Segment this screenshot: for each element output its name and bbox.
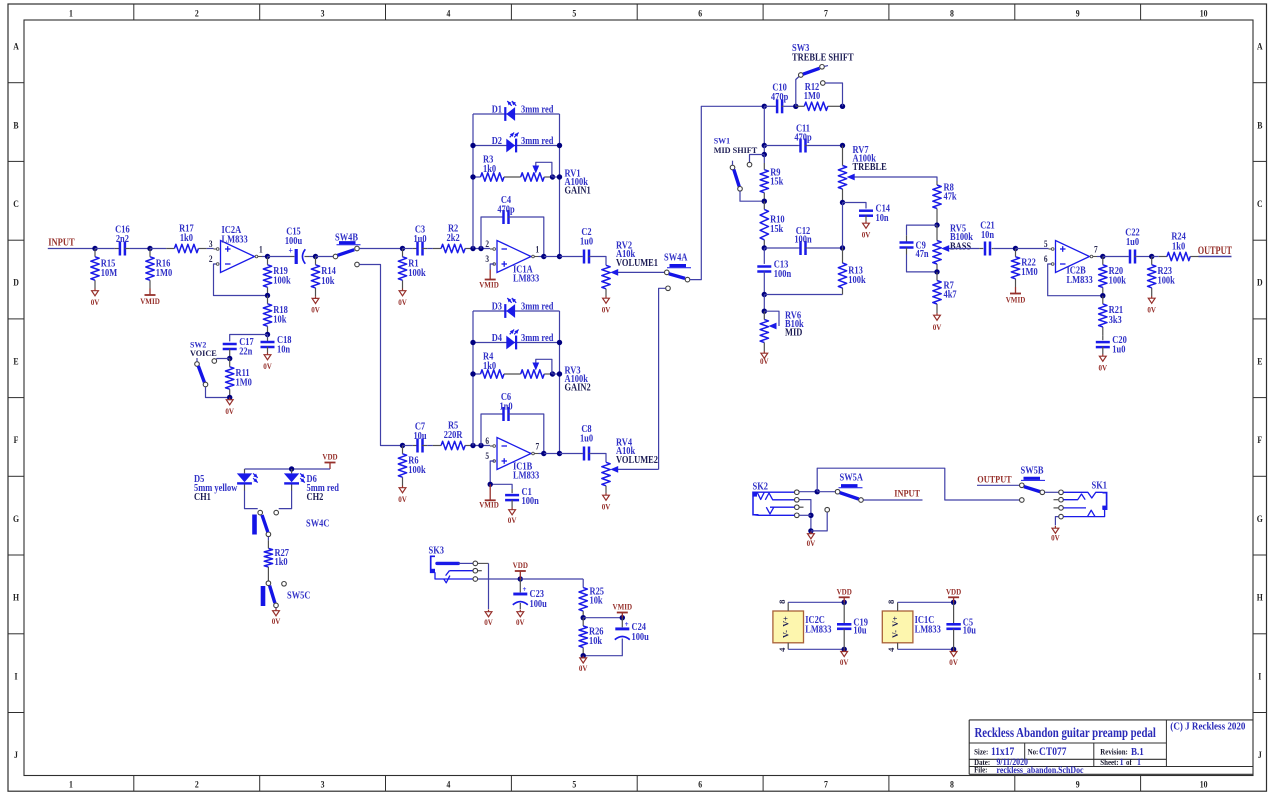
svg-text:TREBLE: TREBLE — [853, 162, 887, 173]
svg-text:VOICE: VOICE — [190, 349, 217, 358]
svg-text:D: D — [1257, 277, 1263, 288]
svg-text:4: 4 — [447, 779, 451, 790]
svg-text:1u0: 1u0 — [1126, 237, 1139, 248]
svg-text:File:: File: — [974, 765, 987, 775]
svg-text:D2: D2 — [492, 136, 503, 147]
svg-text:0V: 0V — [602, 305, 611, 315]
svg-text:VOLUME1: VOLUME1 — [616, 258, 658, 269]
svg-text:1M0: 1M0 — [1021, 267, 1038, 278]
svg-text:10k: 10k — [321, 276, 335, 287]
svg-text:2n2: 2n2 — [116, 234, 129, 245]
svg-text:470p: 470p — [771, 92, 788, 103]
svg-text:1k0: 1k0 — [483, 164, 496, 175]
svg-text:G: G — [1257, 513, 1263, 524]
svg-text:0V: 0V — [579, 663, 588, 673]
svg-text:2: 2 — [209, 254, 213, 264]
svg-text:+: + — [523, 584, 527, 594]
svg-text:VDD: VDD — [946, 587, 962, 597]
svg-text:9: 9 — [1076, 8, 1080, 19]
svg-text:10: 10 — [1200, 8, 1208, 19]
svg-text:No:: No: — [1028, 747, 1039, 757]
svg-text:H: H — [1257, 592, 1263, 603]
svg-text:Sheet:: Sheet: — [1100, 757, 1118, 767]
svg-text:1: 1 — [1137, 756, 1141, 767]
svg-text:J: J — [14, 749, 18, 760]
svg-text:G: G — [13, 513, 19, 524]
svg-text:SK2: SK2 — [753, 482, 769, 493]
svg-text:4k7: 4k7 — [944, 290, 957, 301]
svg-text:0V: 0V — [516, 617, 525, 627]
svg-text:0V: 0V — [602, 502, 611, 512]
svg-text:3k3: 3k3 — [1109, 315, 1122, 326]
svg-text:2: 2 — [195, 8, 199, 19]
svg-text:2: 2 — [485, 239, 489, 249]
svg-text:VMID: VMID — [479, 500, 499, 510]
svg-text:CT077: CT077 — [1039, 746, 1067, 758]
svg-text:1u0: 1u0 — [580, 237, 593, 248]
svg-text:4: 4 — [447, 8, 451, 19]
svg-text:VMID: VMID — [140, 296, 160, 306]
svg-text:GAIN1: GAIN1 — [565, 186, 592, 197]
svg-text:1M0: 1M0 — [804, 91, 821, 102]
svg-text:0V: 0V — [1098, 363, 1107, 373]
svg-text:D: D — [13, 277, 19, 288]
svg-text:MID SHIFT: MID SHIFT — [714, 146, 758, 155]
svg-text:1k0: 1k0 — [275, 557, 288, 568]
svg-text:B: B — [1257, 120, 1262, 131]
svg-text:0V: 0V — [398, 494, 407, 504]
svg-text:LM833: LM833 — [805, 625, 832, 636]
svg-text:10k: 10k — [590, 596, 604, 607]
svg-text:B: B — [13, 120, 18, 131]
svg-text:5: 5 — [485, 451, 489, 461]
svg-text:reckless_abandon.SchDoc: reckless_abandon.SchDoc — [997, 764, 1084, 775]
svg-text:7: 7 — [1094, 245, 1098, 255]
svg-text:Revision:: Revision: — [1100, 747, 1128, 757]
svg-text:V-: V- — [891, 630, 900, 638]
svg-text:E: E — [1257, 356, 1262, 367]
svg-text:22n: 22n — [239, 347, 253, 358]
svg-text:1u0: 1u0 — [580, 434, 593, 445]
svg-text:10k: 10k — [273, 315, 287, 326]
svg-text:0V: 0V — [949, 657, 958, 667]
svg-text:3: 3 — [321, 8, 325, 19]
svg-text:2k2: 2k2 — [447, 233, 460, 244]
svg-text:C: C — [1257, 198, 1263, 209]
svg-text:8: 8 — [777, 600, 787, 604]
svg-text:100k: 100k — [848, 275, 866, 286]
svg-text:1k0: 1k0 — [1172, 242, 1185, 253]
svg-text:0V: 0V — [840, 657, 849, 667]
svg-text:10u: 10u — [413, 431, 426, 442]
svg-text:1: 1 — [69, 779, 73, 790]
svg-text:A: A — [1257, 41, 1263, 52]
svg-text:3mm red: 3mm red — [521, 136, 554, 147]
svg-text:1u0: 1u0 — [413, 234, 426, 245]
svg-text:6: 6 — [698, 779, 702, 790]
svg-text:LM833: LM833 — [222, 235, 249, 246]
svg-text:100u: 100u — [530, 599, 547, 610]
svg-text:1: 1 — [536, 245, 540, 255]
svg-text:100n: 100n — [794, 235, 812, 246]
svg-text:10n: 10n — [876, 214, 890, 225]
svg-text:9: 9 — [1076, 779, 1080, 790]
svg-text:15k: 15k — [770, 177, 784, 188]
svg-text:4: 4 — [777, 647, 787, 652]
svg-text:SW4A: SW4A — [664, 253, 688, 264]
svg-text:1k0: 1k0 — [483, 361, 496, 372]
svg-text:1n0: 1n0 — [499, 402, 512, 413]
svg-text:OUTPUT: OUTPUT — [977, 474, 1011, 485]
svg-text:4: 4 — [886, 647, 896, 652]
svg-text:0V: 0V — [862, 230, 871, 240]
svg-text:0V: 0V — [807, 538, 816, 548]
svg-text:100k: 100k — [408, 268, 426, 279]
svg-text:SW2: SW2 — [190, 340, 206, 349]
svg-text:100n: 100n — [774, 269, 792, 280]
svg-text:E: E — [13, 356, 18, 367]
svg-text:SK3: SK3 — [429, 546, 445, 557]
svg-text:7: 7 — [824, 779, 828, 790]
svg-text:6: 6 — [1044, 254, 1048, 264]
svg-text:VDD: VDD — [322, 452, 338, 462]
svg-text:BASS: BASS — [950, 242, 971, 253]
svg-text:A: A — [13, 41, 19, 52]
svg-text:10M: 10M — [101, 268, 118, 279]
svg-text:470p: 470p — [497, 205, 514, 216]
svg-text:CH1: CH1 — [194, 492, 211, 503]
svg-text:F: F — [14, 434, 19, 445]
svg-text:100k: 100k — [1109, 276, 1127, 287]
svg-text:3: 3 — [485, 254, 489, 264]
svg-text:1k0: 1k0 — [180, 233, 193, 244]
svg-text:1: 1 — [259, 245, 263, 255]
svg-text:C: C — [13, 198, 19, 209]
svg-text:7: 7 — [824, 8, 828, 19]
svg-text:LM833: LM833 — [513, 274, 540, 285]
svg-text:CH2: CH2 — [307, 492, 324, 503]
svg-text:F: F — [1257, 434, 1262, 445]
svg-text:0V: 0V — [760, 356, 769, 366]
svg-text:TREBLE SHIFT: TREBLE SHIFT — [792, 53, 854, 64]
svg-text:8: 8 — [950, 779, 954, 790]
svg-text:SW4C: SW4C — [306, 519, 330, 530]
svg-text:V-: V- — [782, 630, 791, 638]
svg-text:MID: MID — [785, 328, 803, 339]
svg-text:0V: 0V — [484, 617, 493, 627]
svg-text:10u: 10u — [963, 626, 976, 637]
svg-text:+: + — [625, 619, 629, 629]
svg-text:100u: 100u — [632, 632, 649, 643]
svg-text:10u: 10u — [853, 626, 866, 637]
svg-text:V+: V+ — [891, 616, 900, 627]
svg-text:3: 3 — [321, 779, 325, 790]
svg-text:VMID: VMID — [1006, 295, 1026, 305]
svg-text:0V: 0V — [91, 297, 100, 307]
svg-text:VOLUME2: VOLUME2 — [616, 455, 658, 466]
svg-text:8: 8 — [950, 8, 954, 19]
svg-text:Reckless Abandon guitar preamp: Reckless Abandon guitar preamp pedal — [975, 725, 1157, 740]
svg-text:0V: 0V — [933, 322, 942, 332]
svg-text:5: 5 — [572, 779, 576, 790]
svg-text:1M0: 1M0 — [156, 268, 173, 279]
svg-text:INPUT: INPUT — [48, 238, 75, 249]
svg-text:SK1: SK1 — [1092, 481, 1108, 492]
svg-text:47k: 47k — [944, 192, 958, 203]
svg-text:8: 8 — [886, 600, 896, 604]
svg-text:0V: 0V — [225, 406, 234, 416]
svg-text:SW5B: SW5B — [1021, 466, 1045, 477]
svg-text:3mm red: 3mm red — [521, 302, 554, 313]
svg-text:OUTPUT: OUTPUT — [1198, 245, 1233, 258]
svg-text:470p: 470p — [794, 133, 811, 144]
svg-text:1M0: 1M0 — [236, 378, 253, 389]
svg-text:100k: 100k — [408, 465, 426, 476]
svg-text:of: of — [1126, 757, 1132, 767]
svg-text:0V: 0V — [311, 305, 320, 315]
svg-text:100k: 100k — [1158, 276, 1176, 287]
svg-text:LM833: LM833 — [513, 471, 540, 482]
svg-text:GAIN2: GAIN2 — [565, 383, 592, 394]
svg-text:V+: V+ — [782, 616, 791, 627]
svg-text:INPUT: INPUT — [894, 488, 920, 499]
svg-text:47n: 47n — [916, 249, 930, 260]
svg-text:0V: 0V — [263, 361, 272, 371]
svg-text:SW1: SW1 — [714, 136, 730, 145]
svg-text:3mm red: 3mm red — [521, 333, 554, 344]
svg-text:3mm red: 3mm red — [521, 105, 554, 116]
svg-text:0V: 0V — [272, 616, 281, 626]
svg-text:D3: D3 — [492, 302, 503, 313]
svg-text:100n: 100n — [522, 496, 540, 507]
svg-text:LM833: LM833 — [1067, 275, 1094, 286]
svg-text:1u0: 1u0 — [1112, 345, 1125, 356]
svg-text:1: 1 — [69, 8, 73, 19]
svg-text:2: 2 — [195, 779, 199, 790]
svg-text:0V: 0V — [1147, 305, 1156, 315]
svg-text:100u: 100u — [285, 236, 302, 247]
svg-text:5: 5 — [1044, 239, 1048, 249]
svg-text:100k: 100k — [273, 276, 291, 287]
svg-text:220R: 220R — [444, 430, 463, 441]
svg-text:0V: 0V — [508, 515, 517, 525]
svg-text:VMID: VMID — [613, 602, 633, 612]
svg-text:10: 10 — [1200, 779, 1208, 790]
svg-text:5: 5 — [572, 8, 576, 19]
svg-text:6: 6 — [698, 8, 702, 19]
svg-text:10n: 10n — [277, 345, 291, 356]
svg-text:0V: 0V — [1051, 533, 1060, 543]
svg-text:H: H — [13, 592, 19, 603]
svg-text:1: 1 — [1120, 756, 1124, 767]
svg-text:J: J — [1258, 749, 1262, 760]
svg-text:VMID: VMID — [479, 280, 499, 290]
svg-text:3: 3 — [209, 239, 213, 249]
svg-text:10n: 10n — [981, 230, 995, 241]
svg-text:VDD: VDD — [513, 560, 529, 570]
svg-text:SW5A: SW5A — [840, 473, 864, 484]
svg-text:D4: D4 — [492, 333, 503, 344]
svg-text:LM833: LM833 — [915, 625, 942, 636]
svg-text:10k: 10k — [589, 636, 603, 647]
svg-text:15k: 15k — [770, 224, 784, 235]
svg-text:VDD: VDD — [837, 587, 853, 597]
svg-text:6: 6 — [485, 436, 489, 446]
svg-text:(C) J Reckless 2020: (C) J Reckless 2020 — [1170, 721, 1245, 733]
svg-text:Size:: Size: — [974, 747, 988, 757]
svg-text:0V: 0V — [398, 297, 407, 307]
svg-text:7: 7 — [536, 442, 540, 452]
svg-text:SW5C: SW5C — [287, 591, 311, 602]
svg-text:D1: D1 — [492, 105, 503, 116]
